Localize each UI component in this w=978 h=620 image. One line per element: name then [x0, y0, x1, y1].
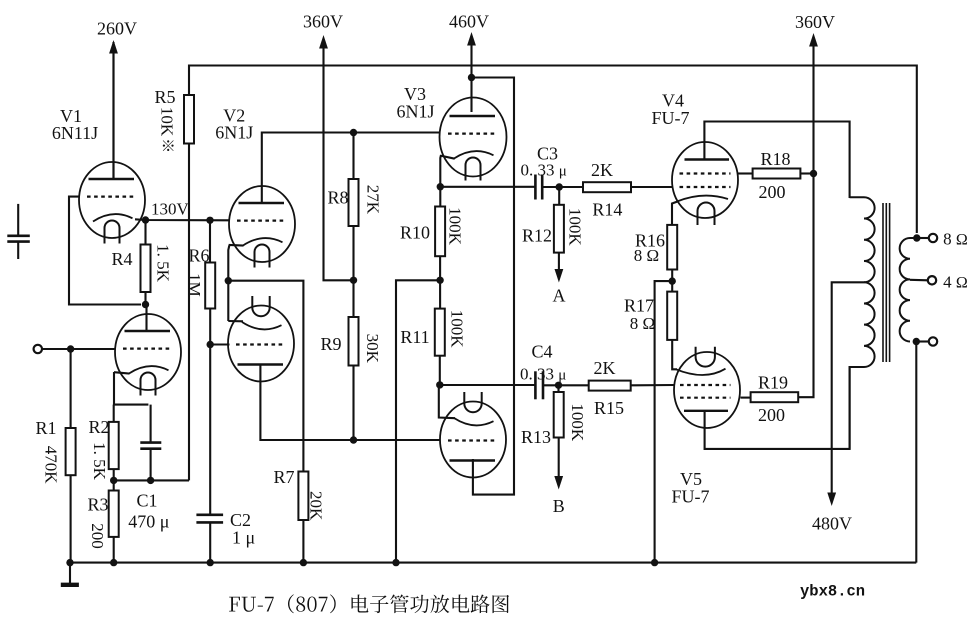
terminal common	[929, 337, 937, 345]
svg-text:8 Ω: 8 Ω	[943, 230, 968, 249]
wire divider tap to ground leg	[396, 280, 440, 562]
wire V3 plate node to lower plate leg	[472, 78, 515, 495]
tube V4 (FU-7)	[672, 142, 738, 225]
svg-text:200: 200	[759, 182, 786, 202]
resistor R12	[554, 205, 564, 253]
wire V1 upper cathode 130V node	[135, 219, 229, 220]
svg-text:100K: 100K	[566, 208, 585, 247]
wire R9 bottom	[352, 366, 354, 441]
tube V3 lower triode (flipped)	[440, 392, 506, 478]
transformer primary winding upper	[850, 197, 875, 282]
svg-text:ybx8.cn: ybx8.cn	[800, 583, 865, 601]
svg-text:FU-7: FU-7	[651, 108, 689, 128]
svg-text:R2: R2	[88, 417, 109, 437]
wire secondary common lead	[916, 340, 929, 342]
junction V1 cathode / R4 top	[142, 216, 149, 223]
svg-text:100K: 100K	[568, 403, 587, 442]
capacitor C2	[196, 515, 223, 563]
wire V1 lower plate lead	[145, 305, 147, 332]
junction R9 bottom / V2 lower plate wire	[350, 436, 357, 443]
svg-text:2K: 2K	[594, 358, 616, 378]
svg-text:470 μ: 470 μ	[128, 512, 169, 532]
wire R3 top stub	[113, 480, 115, 491]
svg-text:R13: R13	[521, 427, 551, 447]
supply arrow 360V (driver rail)	[319, 35, 328, 134]
wire R18 to 360V rail	[800, 172, 813, 174]
wire R2 top stub	[113, 405, 115, 423]
wire input to V1 lower grid	[42, 348, 115, 350]
junction ground rail left end	[66, 559, 73, 566]
svg-text:R7: R7	[273, 467, 294, 487]
wire V2 lower plate down and across	[260, 365, 440, 441]
supply arrow 260V	[109, 40, 118, 179]
junction R8 top / V2 plate wire	[350, 129, 357, 136]
svg-text:100K: 100K	[448, 310, 467, 349]
junction R18 / 360V rail	[810, 170, 817, 177]
svg-text:C4: C4	[531, 342, 552, 362]
svg-text:460V: 460V	[449, 12, 489, 32]
svg-text:R10: R10	[400, 222, 430, 242]
svg-text:R17: R17	[624, 296, 654, 316]
junction R4 bottom / V1 lower plate	[142, 301, 149, 308]
svg-text:C1: C1	[136, 491, 157, 511]
svg-text:360V: 360V	[303, 12, 343, 32]
junction R16/R17 hum node	[669, 277, 676, 284]
svg-text:R12: R12	[522, 225, 552, 245]
junction R11 bottom / row B	[436, 381, 443, 388]
supply arrow 460V	[467, 32, 476, 78]
resistor R18	[753, 169, 801, 179]
svg-text:R18: R18	[760, 149, 790, 169]
tube V3 upper triode (6N1J)	[440, 98, 507, 181]
title FU-7 (807) tube amplifier schematic	[229, 594, 509, 613]
svg-text:470K: 470K	[42, 446, 61, 485]
svg-text:10K: 10K	[158, 107, 177, 137]
svg-text:R6: R6	[188, 245, 209, 265]
wire R16 bottom	[671, 270, 673, 282]
svg-text:8 Ω: 8 Ω	[634, 246, 659, 265]
resistor R1	[66, 428, 76, 475]
svg-text:R19: R19	[758, 373, 788, 393]
junction R6 bottom / V2 lower grid / C2	[207, 341, 214, 348]
resistor R19	[751, 392, 799, 402]
resistor R2	[109, 422, 119, 469]
wire ground rail	[70, 562, 916, 564]
resistor R13	[554, 392, 564, 438]
resistor R4	[141, 245, 151, 293]
svg-text:R15: R15	[594, 398, 624, 418]
wire V3 lower cathode up link	[439, 385, 455, 418]
junction secondary top / feedback rail	[913, 234, 920, 241]
junction C2/ground rail	[207, 559, 214, 566]
junction R10/R11 divider	[436, 277, 443, 284]
wire V4 cathode to R16	[672, 202, 678, 226]
wire R11 top stub	[439, 280, 441, 309]
terminal 8 ohm	[929, 234, 937, 242]
wire secondary return to ground rail	[915, 342, 917, 563]
svg-text:4 Ω: 4 Ω	[943, 273, 968, 292]
svg-text:R11: R11	[400, 327, 429, 347]
transformer core	[883, 203, 890, 362]
wire R5 bottom feedback leg	[188, 144, 190, 481]
svg-text:R5: R5	[154, 87, 175, 107]
wire 8ohm tap lead	[917, 237, 929, 239]
wire row A to C3	[440, 186, 535, 188]
input terminal	[34, 345, 42, 353]
junction input / R1	[67, 345, 74, 352]
svg-text:R4: R4	[111, 249, 132, 269]
wire R2/R3 junction row to R5 leg	[114, 479, 189, 481]
wire V4 plate to transformer primary top	[704, 122, 849, 199]
junction C1 bottom	[147, 477, 154, 484]
resistor R7	[298, 472, 308, 521]
svg-text:1. 5K: 1. 5K	[153, 244, 172, 283]
wire R8 bottom to rail node	[352, 226, 354, 280]
svg-text:0. 33 μ: 0. 33 μ	[521, 161, 567, 180]
transformer primary winding lower	[850, 282, 875, 449]
wire 360V screen rail down to R19	[797, 172, 813, 397]
bias arrow B	[554, 438, 563, 490]
resistor R6	[205, 263, 215, 309]
junction divider leg/ground rail	[392, 559, 399, 566]
wire R14 to V4 grid	[631, 186, 673, 188]
junction V3 plate / 460V / right leg	[468, 74, 475, 81]
svg-text:6N1J: 6N1J	[396, 102, 434, 122]
wire R4 top stub	[144, 220, 146, 245]
junction R2/R3	[110, 477, 117, 484]
wire R17 bottom to V5 cathode	[672, 340, 677, 369]
wire grid lead V2 lower	[210, 343, 229, 345]
tube V5 (FU-7)	[674, 347, 740, 428]
resistor R10	[435, 207, 445, 257]
svg-text:R14: R14	[592, 200, 622, 220]
wire R15 to V5 grid	[631, 384, 674, 386]
wire R9 top stub	[352, 280, 354, 317]
tube V2 lower triode (flipped)	[228, 296, 294, 382]
resistor R5	[184, 95, 194, 144]
wire V4 screen lead	[738, 172, 753, 174]
svg-text:A: A	[553, 286, 566, 306]
supply arrow 360V (output screens rail)	[809, 33, 818, 175]
svg-text:100K: 100K	[446, 207, 465, 246]
wire R3 bottom to ground	[113, 537, 115, 563]
wire V5 screen lead	[741, 397, 752, 399]
resistor R8	[349, 179, 359, 226]
junction R8 bottom / 360V	[350, 277, 357, 284]
junction R7/ground rail	[300, 559, 307, 566]
svg-text:360V: 360V	[795, 12, 835, 32]
wire R7 bottom	[302, 520, 304, 563]
svg-text:R8: R8	[327, 188, 348, 208]
wire R17 top stub	[671, 281, 673, 292]
transformer secondary winding	[900, 238, 917, 342]
wire R6 bottom to V2 lower grid node	[209, 309, 211, 345]
svg-text:FU-7: FU-7	[671, 487, 709, 507]
wire V3 upper cathode stub	[440, 156, 454, 159]
svg-text:20K: 20K	[307, 491, 326, 521]
wire V2 plate lead and coupling to V3 grid	[262, 133, 440, 204]
svg-text:B: B	[553, 496, 565, 516]
resistor R9	[349, 317, 359, 366]
junction R3/ground rail	[110, 559, 117, 566]
wire R11 bottom	[439, 356, 441, 385]
wire V3 plate lead	[470, 79, 472, 112]
wire V1 upper grid to V1 lower plate node	[69, 197, 141, 305]
junction V2 cathodes / R7	[225, 277, 232, 284]
svg-text:6N11J: 6N11J	[52, 123, 98, 143]
svg-text:1 μ: 1 μ	[232, 528, 255, 548]
wire R6 top stub	[209, 220, 211, 263]
wire primary center tap to 480V	[832, 282, 864, 498]
svg-text:27K: 27K	[364, 185, 383, 215]
wire row B to C4	[440, 384, 535, 386]
wire R13 top stub	[557, 385, 559, 392]
capacitor C1	[140, 405, 161, 481]
wire R10 bottom	[439, 256, 441, 280]
wire cathode node to R7 column	[228, 281, 303, 472]
wire R12 top stub	[558, 187, 560, 205]
junction C4 / R13 / R15	[555, 382, 562, 389]
resistor R17	[667, 292, 677, 340]
svg-text:1. 5K: 1. 5K	[90, 442, 109, 481]
svg-text:260V: 260V	[97, 19, 137, 39]
junction C3 / R12 / R14	[556, 183, 563, 190]
wire R1 top	[70, 349, 72, 429]
resistor R14	[583, 182, 631, 192]
svg-text:R9: R9	[320, 334, 341, 354]
wire V3 upper cathode down	[439, 155, 442, 187]
wire hum node to ground leg	[655, 281, 673, 562]
resistor R16	[667, 225, 677, 270]
wire V1 lower cathode stub	[114, 372, 130, 373]
svg-text:6N1J: 6N1J	[215, 123, 253, 143]
svg-text:1M: 1M	[185, 273, 204, 297]
wire link to V2 lower cathode	[228, 320, 243, 322]
wire V2 upper cathode stub	[229, 244, 244, 247]
wire C3 to R14	[542, 186, 583, 188]
wire R2 bottom stub	[113, 469, 115, 480]
wire V2 upper cathode down	[228, 246, 229, 322]
svg-text:R1: R1	[35, 418, 56, 438]
junction secondary bottom / return	[913, 338, 920, 345]
wire R8 top stub	[352, 133, 354, 180]
capacitor C4	[535, 371, 543, 399]
svg-text:8 Ω: 8 Ω	[630, 314, 655, 333]
wire V1 plate lead to 260V	[112, 42, 114, 179]
tube V1 upper triode (6N11J)	[79, 162, 145, 244]
bias arrow A	[555, 253, 564, 283]
tube V1 lower triode (6N11J)	[115, 314, 181, 396]
tube V2 upper triode (6N1J)	[229, 186, 295, 268]
svg-text:480V: 480V	[812, 514, 852, 534]
svg-text:200: 200	[88, 523, 107, 549]
wire V5 plate to transformer primary bottom	[705, 366, 850, 449]
wire R4 bottom to plate node	[144, 292, 146, 305]
capacitor (margin fragment)	[7, 204, 30, 259]
wire R1 bottom to ground rail	[70, 475, 72, 562]
svg-text:30K: 30K	[363, 334, 382, 364]
supply arrow 480V	[827, 493, 836, 507]
wire R10 top stub	[439, 187, 441, 207]
resistor R15	[589, 381, 631, 391]
wire 4ohm tap lead	[910, 279, 928, 282]
wire C4 to R15	[543, 384, 589, 386]
resistor R3	[109, 491, 119, 537]
svg-text:130V: 130V	[151, 200, 190, 219]
wire feedback rail from R5 top to secondary 8ohm tap	[189, 66, 917, 234]
wire 360V rail down to R8 bottom node	[324, 130, 353, 280]
svg-text:200: 200	[758, 405, 785, 425]
svg-text:R3: R3	[87, 495, 108, 515]
junction V3 cathode / R10 / C3 row	[437, 183, 444, 190]
capacitor C3	[535, 175, 542, 200]
junction 130V / R6 top	[206, 217, 213, 224]
junction hum leg/ground rail	[651, 559, 658, 566]
value 10K※ (R5)	[158, 107, 177, 151]
terminal 4 ohm	[928, 276, 936, 284]
ground symbol	[61, 563, 79, 585]
svg-text:2K: 2K	[591, 160, 613, 180]
resistor R11	[435, 309, 445, 356]
svg-text:0. 33 μ: 0. 33 μ	[520, 365, 566, 384]
wire C2 top leg	[209, 345, 211, 515]
wire V1 lower cathode down	[114, 372, 148, 405]
